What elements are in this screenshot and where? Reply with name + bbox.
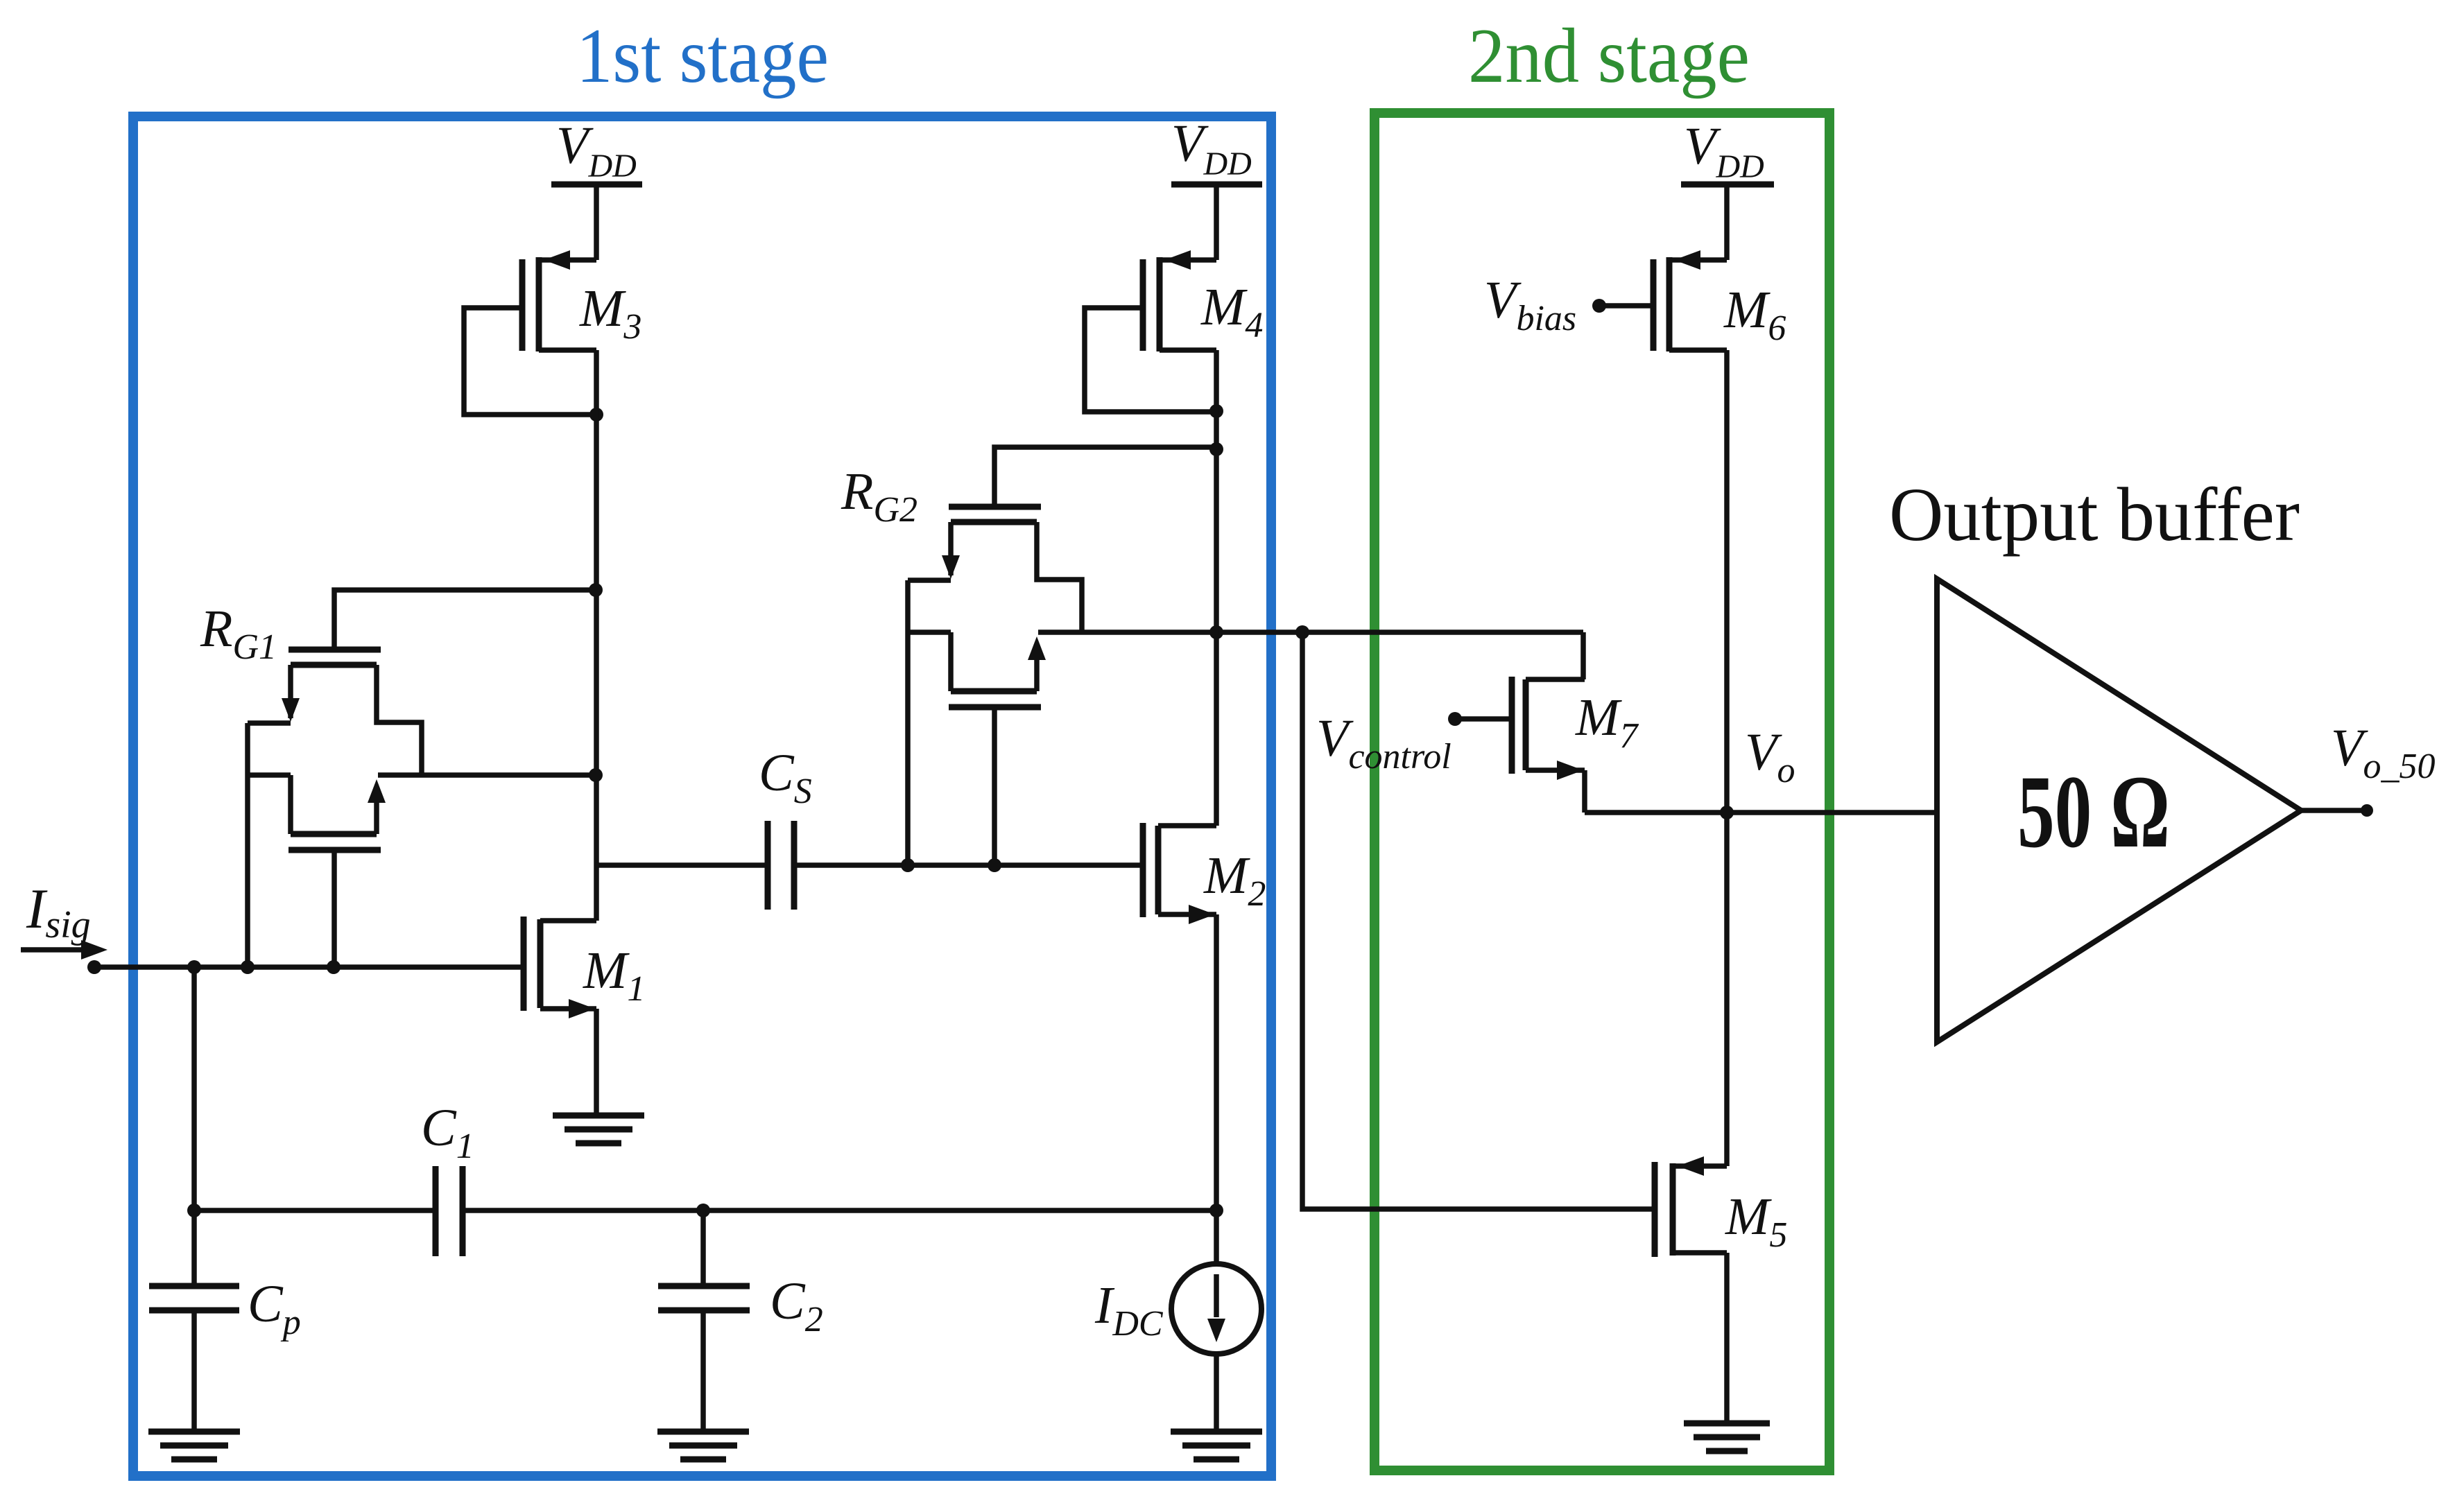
node RG1 top xyxy=(589,583,603,597)
ground M1 xyxy=(553,1115,644,1143)
svg-text:Vo: Vo xyxy=(1745,723,1795,790)
resistor RG2 shelf upper-left xyxy=(908,577,951,583)
svg-text:M3: M3 xyxy=(579,279,641,347)
wire Cp to ground xyxy=(191,1310,197,1432)
svg-text:VDD: VDD xyxy=(556,116,637,184)
svg-text:IDC: IDC xyxy=(1094,1276,1164,1344)
svg-text:Vcontrol: Vcontrol xyxy=(1316,709,1451,776)
resistor RG1 output shelf xyxy=(378,772,596,778)
Isig source arrow xyxy=(21,877,107,959)
resistor RG1 bottom gate bar xyxy=(288,847,381,853)
wire M4 drain rail xyxy=(1214,350,1219,632)
wire M4 gate tie xyxy=(1085,308,1213,412)
svg-text:2nd stage: 2nd stage xyxy=(1468,13,1750,99)
wire M5 gate feed xyxy=(1302,632,1655,1209)
resistor RG2 bottom left lead xyxy=(948,632,954,691)
resistor RG2 top channel xyxy=(951,519,1037,526)
wire stage-1 output xyxy=(1038,629,1583,635)
output buffer title xyxy=(1889,472,2300,557)
transistor M7 xyxy=(1512,677,1639,780)
wire M1 source xyxy=(594,1009,599,1115)
svg-text:1st stage: 1st stage xyxy=(576,13,829,99)
wire C1 right xyxy=(463,1208,1217,1213)
resistor RG1 top source lead xyxy=(282,665,300,722)
svg-text:RG2: RG2 xyxy=(841,462,917,530)
node RG2 top xyxy=(1209,442,1223,456)
svg-text:M6: M6 xyxy=(1723,281,1786,348)
capacitor C1 xyxy=(421,1099,474,1256)
resistor RG1 left rail xyxy=(245,723,250,967)
resistor RG1 bottom gate lead xyxy=(331,850,337,967)
wire C2 to ground xyxy=(700,1310,706,1432)
svg-text:C2: C2 xyxy=(770,1272,823,1339)
VDD rail (M6) xyxy=(1681,117,1774,260)
wire M5 source xyxy=(1724,1253,1730,1423)
resistor RG2 top source lead xyxy=(942,522,960,579)
capacitor Cp xyxy=(149,1275,301,1342)
wire CS right xyxy=(794,862,1143,868)
resistor RG2 top gate wire xyxy=(994,447,1214,507)
wire input net xyxy=(94,964,524,970)
wire M7 source xyxy=(1582,770,1587,813)
ground Cp xyxy=(148,1432,240,1459)
svg-text:M4: M4 xyxy=(1200,278,1263,345)
1st stage title xyxy=(576,13,829,99)
resistor RG2 bottom gate lead xyxy=(992,707,997,865)
resistor RG2 shelf lower-left xyxy=(908,629,951,635)
wire M2 drain xyxy=(1214,632,1219,826)
resistor RG1 shelf lower-left xyxy=(248,772,291,778)
resistor RG1 shelf upper-left xyxy=(248,720,291,726)
resistor RG1 top gate wire xyxy=(334,590,593,650)
resistor RG1 top channel xyxy=(291,662,377,668)
Vo label xyxy=(1745,723,1795,790)
wire M2 source xyxy=(1214,914,1219,1210)
resistor RG1 bottom source lead xyxy=(368,779,386,834)
node Vo xyxy=(1720,806,1734,819)
svg-text:50 Ω: 50 Ω xyxy=(2017,754,2170,869)
Vbias terminal xyxy=(1484,271,1653,338)
svg-text:M1: M1 xyxy=(583,941,645,1009)
resistor RG1 label xyxy=(200,600,277,667)
1st stage bounding box xyxy=(133,116,1271,1476)
wire IDC top xyxy=(1214,1210,1219,1264)
wire M3 drain rail xyxy=(594,350,599,921)
ground IDC xyxy=(1171,1432,1262,1459)
svg-text:Vo_50: Vo_50 xyxy=(2331,719,2435,786)
transistor M6 xyxy=(1653,250,1786,351)
capacitor CS xyxy=(759,744,812,910)
current source IDC xyxy=(1094,1264,1261,1354)
Vcontrol terminal xyxy=(1316,709,1512,776)
ground C2 xyxy=(657,1432,749,1459)
svg-text:M5: M5 xyxy=(1725,1188,1787,1255)
resistor RG1 top gate bar xyxy=(288,647,381,653)
transistor M3 xyxy=(522,250,641,351)
node RG2 left rail xyxy=(901,858,915,872)
resistor RG2 bottom gate bar xyxy=(949,704,1041,711)
transistor M2 xyxy=(1143,823,1266,924)
resistor RG2 left rail xyxy=(905,580,911,865)
Vo_50 label xyxy=(2331,719,2435,786)
node IDC top xyxy=(1209,1204,1223,1217)
transistor M5 xyxy=(1655,1156,1787,1257)
resistor RG1 top drain jog xyxy=(377,665,422,775)
ground M5 xyxy=(1684,1423,1770,1451)
svg-text:VDD: VDD xyxy=(1684,117,1764,185)
svg-text:RG1: RG1 xyxy=(200,600,277,667)
output buffer triangle xyxy=(1937,579,2301,1042)
svg-text:Output buffer: Output buffer xyxy=(1889,472,2300,557)
node M3 drain-gate xyxy=(589,408,603,422)
node M2 drain xyxy=(1209,625,1223,639)
svg-text:C1: C1 xyxy=(421,1099,474,1166)
resistor RG2 top drain jog xyxy=(1037,522,1082,632)
wire CS left xyxy=(596,862,768,868)
resistor RG2 bottom channel xyxy=(951,688,1037,695)
node RG1 gate xyxy=(327,960,341,974)
node M4 drain-gate xyxy=(1209,404,1223,418)
svg-text:Isig: Isig xyxy=(26,877,91,946)
output terminal xyxy=(2361,804,2373,817)
node C1 left xyxy=(187,1204,201,1217)
50 ohm label xyxy=(2017,754,2170,869)
transistor M4 xyxy=(1143,250,1263,351)
resistor RG2 label xyxy=(841,462,917,530)
svg-text:Vbias: Vbias xyxy=(1484,271,1576,338)
resistor RG1 bottom channel xyxy=(291,831,377,837)
wire IDC bottom xyxy=(1214,1354,1219,1432)
node RG1 left xyxy=(241,960,255,974)
2nd stage title xyxy=(1468,13,1750,99)
2nd stage bounding box xyxy=(1375,113,1829,1470)
node RG2 gate xyxy=(988,858,1001,872)
node stage-2 branch xyxy=(1295,625,1309,639)
svg-text:M2: M2 xyxy=(1203,846,1266,914)
resistor RG1 bottom left lead xyxy=(288,775,293,834)
svg-text:Cp: Cp xyxy=(248,1275,301,1342)
svg-text:VDD: VDD xyxy=(1171,114,1252,182)
transistor M1 xyxy=(524,917,645,1018)
node RG1 output xyxy=(589,768,603,782)
wire M7 drain xyxy=(1580,632,1586,679)
node input xyxy=(87,960,101,974)
wire output xyxy=(2301,808,2361,813)
wire Cp branch xyxy=(191,967,197,1286)
resistor RG2 top gate bar xyxy=(949,504,1041,510)
svg-text:M7: M7 xyxy=(1575,688,1639,756)
VDD rail (M4) xyxy=(1171,114,1262,260)
VDD rail (M3) xyxy=(551,116,642,260)
node C2 branch xyxy=(696,1204,710,1217)
wire M6 drain rail xyxy=(1724,350,1730,1166)
node Cp branch xyxy=(187,960,201,974)
svg-text:CS: CS xyxy=(759,744,812,811)
wire M3 gate tie xyxy=(464,308,593,415)
capacitor C2 xyxy=(658,1272,823,1339)
wire Vo net xyxy=(1585,810,1937,815)
wire C2 branch xyxy=(700,1210,706,1286)
wire C1 left xyxy=(194,1208,436,1213)
resistor RG2 bottom source lead xyxy=(1028,636,1046,691)
